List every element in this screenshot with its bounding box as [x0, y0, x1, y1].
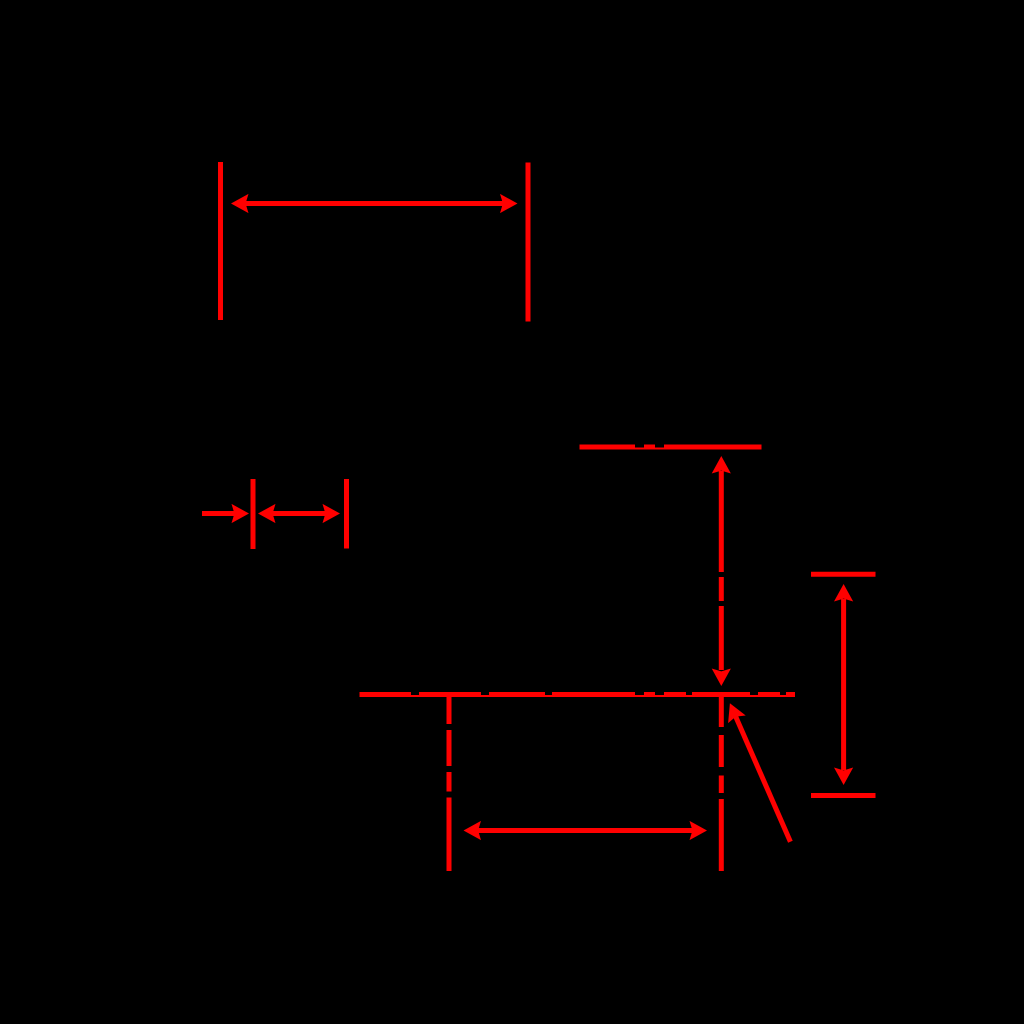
baseline F (long horizontal line): [360, 692, 796, 695]
dimension arrow height H1 (vertical double-headed): [712, 456, 731, 686]
extension line J (bottom-right vertical): [719, 697, 724, 871]
extension line A (top-left vertical): [218, 162, 223, 320]
extension line C (middle-left vertical): [251, 479, 256, 549]
extension line D (middle-right vertical): [344, 479, 349, 549]
reference bar H (far-right lower mark): [811, 793, 876, 798]
reference bar G (far-right upper mark): [811, 572, 876, 577]
extension line I (bottom-left vertical): [447, 697, 452, 872]
dimension arrow bottom width (double-headed horizontal): [464, 821, 708, 840]
dimension arrow small width (double-headed outward): [258, 504, 340, 523]
extension line B (top-right vertical): [526, 163, 531, 322]
leader arrow diagonal (pointing to baseline junction): [721, 699, 790, 841]
dimension arrow top width (double-headed horizontal): [231, 194, 518, 213]
reference bar E (upper level mark): [580, 445, 762, 448]
leader arrow small (pointing right toward line C): [202, 504, 249, 523]
dimension arrow height H2 (far-right vertical double-headed): [834, 584, 853, 785]
